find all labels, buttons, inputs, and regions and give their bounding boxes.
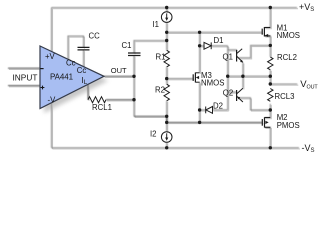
svg-text:RCL3: RCL3 [275,92,295,101]
svg-text:D1: D1 [214,36,224,45]
op-amp U1 [40,46,104,109]
label plus input [41,86,45,90]
svg-text:-V: -V [48,96,57,105]
wire shadow layer [9,9,300,149]
op-amp U1 drop shadow [44,51,108,114]
svg-text:INPUT: INPUT [13,73,38,83]
svg-text:PMOS: PMOS [277,121,300,130]
svg-text:PA441: PA441 [50,73,74,82]
svg-text:CC: CC [89,32,101,41]
svg-text:D2: D2 [213,102,223,111]
svg-text:Cc: Cc [77,66,87,75]
svg-text:NMOS: NMOS [201,78,224,87]
svg-text:R1: R1 [156,53,166,62]
svg-text:C1: C1 [122,41,132,50]
svg-text:I1: I1 [153,20,160,29]
svg-text:RCL1: RCL1 [92,103,112,112]
svg-text:OUT: OUT [111,66,127,75]
label minus input [40,68,43,70]
svg-text:+V: +V [45,52,56,61]
svg-text:Q1: Q1 [223,53,233,62]
svg-text:Cc: Cc [66,59,76,68]
svg-text:R2: R2 [155,86,165,95]
svg-text:Q2: Q2 [223,88,233,97]
svg-text:RCL2: RCL2 [277,53,297,62]
svg-text:NMOS: NMOS [277,31,300,40]
svg-text:I2: I2 [150,130,157,139]
